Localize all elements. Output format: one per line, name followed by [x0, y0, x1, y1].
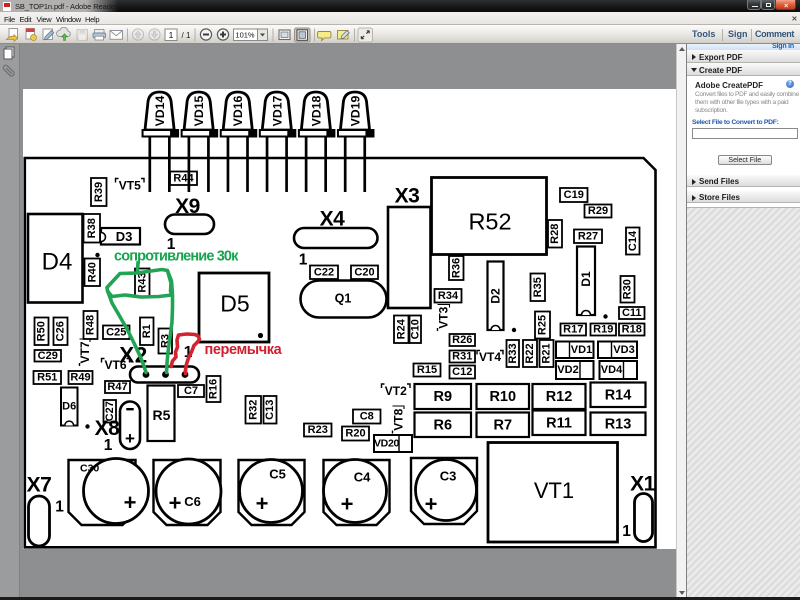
resistor R44 — [170, 172, 197, 186]
resistor R24 — [394, 316, 409, 344]
annotation green wire to X2 pin 2 — [166, 272, 172, 373]
resistor R30 — [620, 276, 634, 303]
resistor R10 — [476, 384, 529, 409]
svg-text:VD14: VD14 — [153, 95, 167, 126]
svg-text:R17: R17 — [563, 324, 583, 336]
PCB board outline — [24, 158, 655, 547]
resistor R39 — [91, 178, 107, 206]
resistor R5 — [147, 386, 174, 442]
resistor R6 — [414, 413, 471, 438]
resistor R51 — [33, 371, 61, 384]
left sidebar — [0, 44, 20, 597]
resistor R9 — [414, 384, 471, 409]
junction dot near X8 — [85, 424, 89, 428]
resistor R12 — [532, 384, 585, 409]
junction dot near D1 — [603, 314, 607, 318]
resistor R40 — [84, 259, 100, 287]
svg-text:R21: R21 — [540, 343, 552, 363]
resistor R33 — [506, 340, 519, 367]
capacitor C11 — [619, 307, 645, 319]
menu bar — [0, 12, 800, 25]
svg-text:R27: R27 — [577, 230, 597, 242]
capacitor C14 — [626, 228, 640, 255]
IC D4 — [28, 214, 83, 303]
transistor VT1 — [488, 443, 618, 543]
diode D1 — [577, 247, 595, 316]
resistor R3 — [158, 329, 172, 354]
resistor R25 — [535, 312, 550, 339]
transistor label VT3 — [436, 305, 450, 332]
resistor R11 — [532, 411, 585, 436]
svg-text:VT2: VT2 — [384, 384, 406, 398]
svg-text:C11: C11 — [621, 307, 641, 319]
svg-text:D5: D5 — [220, 291, 249, 317]
svg-text:C14: C14 — [626, 230, 638, 251]
capacitor C7 — [178, 385, 204, 397]
svg-text:C30: C30 — [80, 463, 99, 475]
svg-text:C6: C6 — [184, 494, 201, 509]
window bottom border — [0, 597, 800, 600]
diode VD2 — [556, 361, 594, 379]
svg-text:R38: R38 — [85, 218, 97, 238]
svg-text:R36: R36 — [450, 258, 462, 278]
svg-text:C3: C3 — [439, 469, 456, 484]
resistor R47 — [105, 381, 130, 393]
title bar — [0, 0, 800, 12]
maximize button — [761, 0, 775, 10]
resistor R26 — [449, 334, 475, 346]
svg-text:R13: R13 — [604, 416, 631, 432]
vertical scrollbar — [676, 44, 686, 597]
svg-text:R50: R50 — [35, 321, 47, 341]
transistor label VT4 — [477, 350, 503, 364]
svg-text:R19: R19 — [593, 324, 613, 336]
svg-text:VD18: VD18 — [309, 95, 323, 126]
resistor R7 — [476, 413, 529, 438]
svg-text:R16: R16 — [207, 379, 219, 399]
LED VD15 — [181, 92, 217, 192]
svg-text:R43: R43 — [136, 272, 148, 292]
resistor R49 — [68, 371, 92, 384]
D5 pin-1 dot — [257, 333, 262, 338]
svg-text:+: + — [125, 429, 135, 448]
svg-text:VD16: VD16 — [231, 95, 245, 126]
minimize button — [747, 0, 761, 10]
svg-text:R39: R39 — [92, 182, 104, 202]
svg-text:R47: R47 — [107, 381, 127, 393]
IC D5 — [199, 273, 269, 342]
svg-text:R7: R7 — [493, 417, 512, 433]
svg-text:VD15: VD15 — [192, 95, 206, 126]
svg-text:+: + — [424, 492, 437, 517]
annotation green loop around R43 — [107, 263, 172, 298]
svg-text:X7: X7 — [26, 474, 51, 497]
svg-text:R24: R24 — [395, 318, 407, 339]
svg-text:R6: R6 — [433, 417, 452, 433]
svg-text:VD20: VD20 — [373, 438, 399, 450]
svg-text:C12: C12 — [452, 366, 472, 378]
svg-text:C4: C4 — [353, 470, 370, 485]
diode VD4 — [599, 361, 637, 379]
diode D3 — [101, 228, 140, 245]
resistor R38 — [83, 214, 100, 243]
connector X4 pad — [294, 228, 378, 248]
svg-text:VD3: VD3 — [613, 344, 634, 356]
svg-text:R44: R44 — [173, 172, 194, 184]
connector X8 pad — [120, 402, 140, 450]
svg-text:C13: C13 — [264, 400, 276, 420]
capacitor C3 — [411, 458, 477, 524]
diode D6 — [61, 388, 78, 426]
svg-text:+: + — [255, 491, 268, 516]
svg-text:VT8: VT8 — [391, 408, 405, 430]
svg-text:R14: R14 — [604, 387, 631, 403]
svg-text:+: + — [168, 491, 181, 516]
resistor R23 — [304, 424, 332, 437]
svg-text:R29: R29 — [587, 205, 607, 217]
junction dot near D3 — [95, 253, 99, 257]
diode VD3 — [598, 342, 637, 359]
toolbar — [0, 25, 800, 44]
annotation red jumper wire at X2 pin 3 — [171, 334, 200, 374]
svg-text:C8: C8 — [359, 411, 373, 423]
svg-text:VD17: VD17 — [270, 95, 284, 126]
resistor R52 — [431, 178, 546, 255]
svg-text:VD4: VD4 — [600, 364, 622, 376]
capacitor C13 — [263, 396, 276, 424]
svg-text:C19: C19 — [563, 189, 583, 201]
svg-text:R49: R49 — [70, 372, 90, 384]
capacitor C19 — [560, 188, 588, 202]
svg-text:R52: R52 — [468, 209, 511, 235]
svg-text:C25: C25 — [106, 326, 126, 338]
transistor label VT2 — [381, 384, 410, 398]
transistor label VT8 — [391, 406, 405, 434]
svg-text:VT3: VT3 — [436, 306, 450, 328]
close button — [775, 0, 796, 10]
svg-text:C26: C26 — [54, 321, 66, 341]
resistor R20 — [342, 427, 369, 441]
capacitor C4 — [323, 460, 389, 526]
resistor R36 — [449, 256, 464, 280]
svg-text:C5: C5 — [269, 467, 286, 482]
svg-text:+: + — [340, 492, 353, 517]
svg-text:R40: R40 — [86, 262, 98, 282]
svg-text:VT7: VT7 — [77, 341, 91, 363]
svg-text:X1: X1 — [630, 473, 656, 496]
transistor Q1 — [300, 281, 386, 318]
capacitor C6 — [153, 459, 221, 525]
svg-text:R9: R9 — [433, 389, 452, 405]
LED VD17 — [259, 92, 295, 192]
right task panel — [686, 44, 800, 597]
svg-text:1: 1 — [55, 499, 64, 516]
resistor R35 — [530, 274, 545, 302]
LED VD16 — [220, 92, 256, 192]
svg-text:VD1: VD1 — [570, 344, 591, 356]
svg-text:VT5: VT5 — [118, 178, 140, 192]
svg-text:VD2: VD2 — [557, 364, 578, 376]
svg-text:R12: R12 — [545, 389, 572, 405]
svg-text:R23: R23 — [307, 424, 327, 436]
svg-text:VT4: VT4 — [478, 350, 500, 364]
resistor R29 — [584, 205, 611, 218]
svg-text:1: 1 — [298, 252, 307, 269]
svg-text:R20: R20 — [345, 428, 365, 440]
capacitor C26 — [53, 318, 67, 346]
transistor label VT7 — [77, 339, 91, 366]
resistor R14 — [590, 383, 645, 408]
resistor R15 — [413, 364, 440, 377]
svg-text:C29: C29 — [37, 350, 57, 362]
connector X3 body — [388, 207, 431, 308]
svg-text:1: 1 — [622, 523, 631, 540]
transistor label VT5 — [115, 178, 144, 192]
svg-text:R32: R32 — [247, 400, 259, 420]
document area — [21, 44, 676, 597]
capacitor C29 — [34, 350, 61, 362]
resistor R31 — [449, 351, 475, 363]
resistor R22 — [523, 340, 537, 367]
svg-text:D2: D2 — [488, 288, 502, 304]
app icon — [3, 2, 11, 11]
connector X1 pad — [634, 494, 652, 542]
diode D2 — [487, 262, 503, 331]
capacitor C5 — [238, 460, 304, 526]
svg-text:Q1: Q1 — [334, 292, 351, 306]
svg-text:D6: D6 — [62, 401, 76, 413]
resistor R43 — [135, 269, 150, 297]
svg-text:перемычка: перемычка — [204, 342, 282, 358]
resistor R19 — [590, 324, 616, 336]
connector X9 pad — [165, 215, 214, 235]
resistor R48 — [83, 311, 97, 339]
svg-text:R30: R30 — [621, 279, 633, 299]
svg-text:D1: D1 — [579, 271, 593, 287]
connector X7 pad — [28, 496, 49, 546]
svg-text:R1: R1 — [140, 324, 152, 338]
transistor label VT6 — [101, 358, 129, 372]
resistor R32 — [245, 396, 261, 424]
capacitor C30 — [68, 459, 148, 526]
svg-text:C7: C7 — [183, 385, 197, 397]
svg-text:X3: X3 — [394, 185, 419, 208]
capacitor C20 — [351, 266, 378, 280]
svg-text:R26: R26 — [452, 334, 472, 346]
junction dot near D2 — [511, 328, 515, 332]
svg-text:C20: C20 — [354, 266, 374, 278]
svg-text:C10: C10 — [409, 319, 421, 339]
svg-text:R11: R11 — [546, 415, 572, 431]
svg-text:C22: C22 — [313, 266, 333, 278]
capacitor C8 — [353, 410, 381, 424]
white PDF page — [23, 89, 676, 549]
svg-text:R18: R18 — [621, 324, 641, 336]
svg-text:R51: R51 — [37, 372, 57, 384]
resistor R27 — [574, 230, 602, 244]
connector X2 pad — [130, 367, 199, 383]
capacitor C10 — [409, 316, 421, 344]
svg-text:R5: R5 — [152, 407, 170, 423]
svg-text:VT1: VT1 — [533, 478, 573, 503]
resistor R13 — [590, 413, 645, 436]
svg-text:R34: R34 — [437, 290, 458, 302]
svg-text:1: 1 — [103, 437, 112, 454]
svg-text:R22: R22 — [524, 343, 536, 363]
capacitor C27 — [103, 400, 116, 423]
resistor R21 — [539, 340, 553, 367]
resistor R16 — [206, 376, 220, 402]
window title — [15, 2, 117, 11]
svg-text:R28: R28 — [549, 224, 561, 244]
LED VD14 — [142, 92, 178, 192]
svg-text:R35: R35 — [531, 277, 543, 297]
svg-text:R31: R31 — [452, 351, 472, 363]
LED VD19 — [337, 92, 373, 192]
annotation green wire to X2 pin 1 — [108, 292, 146, 373]
svg-text:R48: R48 — [84, 315, 96, 335]
svg-text:R33: R33 — [506, 343, 518, 363]
capacitor C25 — [103, 326, 130, 340]
svg-text:R15: R15 — [416, 364, 436, 376]
svg-text:D4: D4 — [41, 249, 72, 276]
diode VD1 — [556, 342, 594, 359]
resistor R18 — [619, 324, 645, 336]
resistor R1 — [140, 318, 154, 346]
svg-text:D3: D3 — [115, 229, 132, 244]
svg-text:сопротивление 30к: сопротивление 30к — [114, 249, 239, 265]
resistor R50 — [34, 318, 48, 346]
resistor R34 — [434, 289, 461, 303]
capacitor C12 — [449, 366, 475, 379]
svg-text:R10: R10 — [489, 389, 516, 405]
capacitor C22 — [310, 266, 338, 280]
resistor R28 — [548, 220, 562, 248]
resistor R17 — [560, 324, 586, 336]
svg-text:+: + — [123, 490, 136, 515]
LED VD18 — [298, 92, 334, 192]
svg-text:R25: R25 — [536, 315, 548, 335]
svg-text:VD19: VD19 — [348, 95, 362, 126]
diode VD20 — [373, 435, 411, 452]
